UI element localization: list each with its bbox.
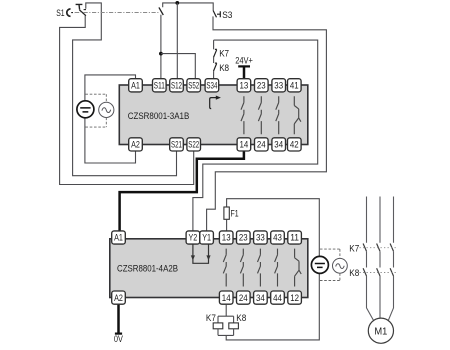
AC source right (alternative): [333, 258, 348, 273]
coil K7: [213, 323, 223, 329]
svg-text:A2: A2: [114, 293, 123, 304]
svg-text:A1: A1: [114, 233, 123, 244]
svg-text:S52: S52: [188, 81, 199, 92]
terminal 0V bar: [115, 333, 122, 335]
svg-text:44: 44: [273, 293, 282, 304]
terminal 13 (U2 top): [219, 231, 233, 244]
dashed link right supply: [320, 249, 340, 280]
supply 24V+ bar: [238, 65, 250, 67]
wire S1 ch1 bottom to S22: [60, 16, 194, 185]
svg-text:42: 42: [290, 140, 299, 151]
terminal 33 (U2 top): [254, 231, 268, 244]
battery G1 (DC supply left): [80, 108, 90, 112]
wires to motor: [367, 276, 394, 320]
terminal 41 (U1 top): [288, 79, 302, 92]
wire bold 14 module1 to A1 module2: [120, 151, 244, 231]
terminal 44 (U2 bottom): [271, 291, 285, 304]
wire battery G1 to A1 module1: [85, 75, 136, 101]
wire branch to S52: [161, 54, 195, 79]
svg-text:24V+: 24V+: [235, 55, 253, 65]
wire battery G2 bottom to K7/K8 coils: [226, 273, 319, 340]
svg-text:CZSR8001-3A1B: CZSR8001-3A1B: [128, 111, 190, 122]
contact 41-42 NC (U1): [294, 96, 301, 134]
motor M1: [368, 318, 393, 343]
node junction S52 branch: [159, 52, 163, 56]
switch S3 actuator: [217, 11, 220, 17]
contact 33-34 (U2): [258, 249, 261, 287]
contact K7 (aux, top): [213, 40, 215, 49]
svg-text:13: 13: [222, 233, 231, 244]
module U2 CZSR8801-4A2B body: [110, 239, 308, 298]
coil K8: [229, 323, 239, 329]
svg-text:CZSR8801-4A2B: CZSR8801-4A2B: [117, 263, 178, 274]
terminal 42 (U1 bottom): [288, 138, 302, 151]
switch S1 contact ch1: [79, 10, 86, 16]
terminal S52 (U1 top): [187, 79, 201, 92]
svg-text:33: 33: [274, 81, 283, 92]
module U1 CZSR8001-3A1B body: [119, 85, 307, 145]
terminal 12 (U2 bottom): [288, 291, 302, 304]
mechanical link dash-dot S1: [75, 12, 159, 14]
terminal 34 (U2 bottom): [254, 291, 268, 304]
terminal A1 (U1 top): [129, 79, 143, 92]
terminal S22 (U1 bottom): [187, 138, 201, 151]
svg-text:F1: F1: [231, 209, 239, 219]
svg-text:12: 12: [290, 293, 299, 304]
svg-text:Y1: Y1: [202, 233, 211, 244]
terminal A1 (U2 top): [112, 231, 126, 244]
reset symbol (U1): [210, 98, 217, 109]
contact 43-44 (U2): [275, 249, 278, 287]
svg-text:13: 13: [240, 81, 249, 92]
svg-text:K7: K7: [349, 243, 359, 253]
terminal Y2 (U2 top): [186, 231, 200, 244]
svg-text:K8: K8: [219, 63, 229, 73]
wire S1 ch2 top line to S3: [163, 3, 214, 11]
svg-text:K8: K8: [236, 313, 246, 323]
svg-text:S11: S11: [154, 81, 165, 92]
svg-text:S1: S1: [56, 8, 64, 18]
svg-text:24: 24: [239, 293, 248, 304]
switch S1 mushroom actuator: [67, 9, 71, 16]
terminal 33 (U1 top): [272, 79, 286, 92]
wire S1 ch2 bottom to S11: [160, 15, 162, 79]
svg-text:K8: K8: [349, 268, 359, 278]
terminal S34 (U1 top): [205, 79, 219, 92]
mechanical link dash-dot K7 row: [360, 247, 397, 249]
contact 23-24 (U1): [258, 96, 261, 134]
dashed link left supply: [85, 94, 106, 127]
switch S1 contact ch2: [159, 7, 163, 15]
terminal Y1 (U2 top): [200, 231, 214, 244]
terminal 13 (U1 top): [237, 79, 251, 92]
wire A2 module1 to battery G1: [85, 118, 136, 163]
contact 23-24 (U2): [240, 249, 243, 287]
svg-text:0V: 0V: [114, 334, 123, 344]
terminal 43 (U2 top): [271, 231, 285, 244]
wire F1 rail from 13 module2 to battery G2: [227, 199, 320, 257]
AC source left (alternative): [99, 102, 114, 117]
terminal S11 (U1 top): [153, 79, 167, 92]
svg-text:A2: A2: [131, 140, 140, 151]
svg-text:23: 23: [257, 81, 266, 92]
terminal 34 (U1 bottom): [272, 138, 286, 151]
wire bold 24V+ to 13 module1: [243, 66, 246, 78]
svg-text:S21: S21: [171, 140, 182, 151]
wire K7 chain to Y2 (right loop inner): [193, 40, 318, 231]
terminal 24 (U1 bottom): [255, 138, 269, 151]
terminal 23 (U1 top): [255, 79, 269, 92]
terminal S12 (U1 top): [170, 79, 184, 92]
svg-text:Y2: Y2: [189, 233, 198, 244]
wires between K7 and K8 rows: [367, 251, 394, 267]
svg-text:K7: K7: [219, 48, 229, 58]
terminal A2 (U2 bottom): [112, 291, 126, 304]
mechanical link dash-dot K8 row: [360, 272, 397, 274]
terminal 14 (U2 bottom): [219, 291, 233, 304]
Y2-Y1 internal loop (U2): [193, 245, 209, 264]
svg-text:33: 33: [256, 233, 265, 244]
wire 14 module2 to coils: [218, 305, 234, 323]
svg-text:S3: S3: [222, 10, 232, 20]
fuse F1: [224, 207, 229, 219]
contact 33-34 (U1): [276, 96, 279, 134]
svg-text:S22: S22: [188, 140, 199, 151]
svg-text:A1: A1: [131, 81, 140, 92]
terminal S21 (U1 bottom): [170, 138, 184, 151]
contactor K7 main contacts: [363, 244, 366, 252]
svg-text:14: 14: [240, 140, 249, 151]
three-phase supply lines: [367, 197, 394, 243]
svg-text:S12: S12: [171, 81, 182, 92]
wire bold A2 module2 to 0V: [117, 305, 120, 334]
svg-text:S34: S34: [206, 81, 217, 92]
svg-text:14: 14: [222, 293, 231, 304]
contact 13-14 (U1): [241, 96, 244, 134]
contact K8 (aux, top): [213, 57, 215, 63]
node junction S12 drop: [175, 1, 179, 5]
switch S3 contact: [213, 11, 216, 18]
wire S3 to Y1 (right loop outer): [207, 16, 327, 231]
svg-text:34: 34: [256, 293, 265, 304]
svg-text:34: 34: [274, 140, 283, 151]
battery G2 (DC supply right): [315, 264, 325, 268]
svg-text:23: 23: [239, 233, 248, 244]
svg-text:24: 24: [257, 140, 266, 151]
svg-text:K7: K7: [206, 313, 216, 323]
terminal A2 (U1 bottom): [129, 138, 143, 151]
contactor K8 main contacts: [363, 268, 366, 276]
contact 11-12 NC (U2): [295, 249, 302, 287]
terminal 24 (U2 bottom): [237, 291, 251, 304]
wire S1 ch1 top to S21 (left outer loop): [73, 3, 177, 176]
terminal 14 (U1 bottom): [237, 138, 251, 151]
svg-text:11: 11: [290, 233, 299, 244]
svg-text:41: 41: [290, 81, 299, 92]
terminal 23 (U2 top): [237, 231, 251, 244]
wire junction to S12: [176, 3, 178, 79]
svg-text:M1: M1: [374, 326, 387, 338]
contact 13-14 (U2): [223, 249, 226, 287]
wire coils join: [218, 329, 234, 336]
svg-text:43: 43: [273, 233, 282, 244]
terminal 11 (U2 top): [288, 231, 302, 244]
